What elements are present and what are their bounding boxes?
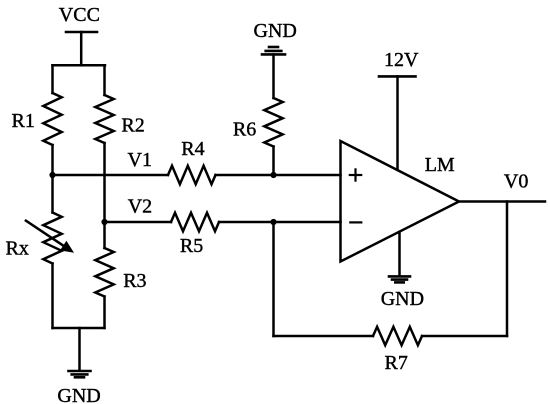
svg-text:R4: R4 <box>181 138 204 160</box>
svg-text:R1: R1 <box>12 110 35 132</box>
svg-text:LM: LM <box>425 154 455 176</box>
svg-text:R2: R2 <box>121 114 144 136</box>
svg-text:VCC: VCC <box>59 4 100 26</box>
svg-text:R6: R6 <box>233 118 256 140</box>
svg-text:12V: 12V <box>384 49 419 71</box>
svg-text:R5: R5 <box>180 235 203 257</box>
svg-text:V0: V0 <box>504 170 528 192</box>
svg-text:GND: GND <box>57 385 100 404</box>
svg-text:V2: V2 <box>128 195 152 217</box>
svg-text:R7: R7 <box>385 352 408 374</box>
svg-text:R3: R3 <box>123 270 146 292</box>
svg-text:Rx: Rx <box>6 237 29 259</box>
svg-text:V1: V1 <box>128 149 152 171</box>
svg-text:GND: GND <box>381 288 424 310</box>
svg-text:GND: GND <box>254 20 297 42</box>
